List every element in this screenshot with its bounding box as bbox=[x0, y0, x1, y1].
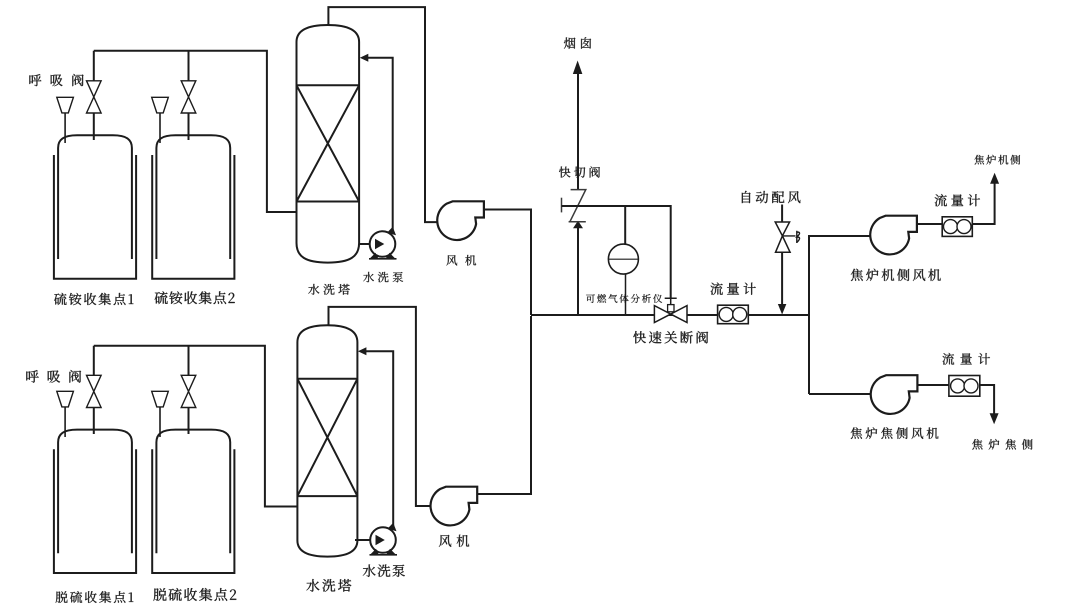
pipe tank2 valve riser bbox=[188, 51, 190, 140]
pump P2 washing pump discharge arrowhead bbox=[388, 523, 397, 532]
label kuai-su-guan-duan-fa bbox=[633, 331, 708, 343]
arrow to chimney bbox=[573, 61, 583, 75]
breathing valve funnel F1 bbox=[57, 97, 74, 113]
label kuai-qie-fa bbox=[559, 166, 600, 177]
main gas pipe bbox=[531, 314, 809, 316]
breathing valve funnel F3 bbox=[57, 391, 74, 407]
pipe chimney riser bbox=[577, 74, 579, 316]
label shui-xi-beng bottom bbox=[363, 564, 405, 576]
tank T3 desulfurization-1 outer shell bbox=[54, 449, 136, 573]
tank T1 ammonium-sulfate-1 inner vessel bbox=[58, 135, 132, 259]
tank T2 ammonium-sulfate-2 inner vessel bbox=[156, 135, 230, 259]
pump P1 washing pump feet bbox=[370, 253, 396, 259]
arrow into column1 top bbox=[360, 54, 369, 62]
pipe fan1 outlet to main line bbox=[484, 210, 532, 316]
auto-air control valve bowtie bbox=[775, 222, 790, 252]
pipe fan3 outlet bbox=[917, 184, 995, 225]
pipe auto-air valve top bbox=[781, 205, 783, 222]
pipe distribution tee riser bbox=[809, 236, 871, 394]
fan FAN3 coke oven machine side (centrifugal blower) bbox=[870, 216, 917, 255]
combustible gas analyzer circle bbox=[608, 244, 638, 274]
tank T4 desulfurization-2 outer shell bbox=[152, 449, 234, 573]
pipe analyzer branch bbox=[562, 206, 671, 298]
analyzer branch flange tick bbox=[561, 198, 563, 213]
label jiao-lu-jiao-ce bbox=[972, 439, 1032, 450]
pipe header tanks 1-2 to column 1 bbox=[94, 51, 297, 212]
quick shut-off valve stem tick bbox=[665, 298, 677, 306]
arrow auto-air into main pipe bbox=[778, 304, 787, 315]
analyzer sensing line to main pipe bbox=[625, 274, 627, 315]
label feng-ji top bbox=[446, 255, 476, 266]
washing tower column C1 shell bbox=[297, 25, 360, 263]
column C1 packing section bottom line bbox=[297, 201, 360, 203]
pipe tank4 valve riser bbox=[188, 346, 190, 434]
label tank2 caption bbox=[155, 291, 235, 304]
pipe analyzer drop bbox=[624, 206, 626, 245]
pump P2 washing pump feet bbox=[370, 549, 396, 555]
pipe auto-air valve to main bbox=[781, 252, 783, 304]
arrow below quick-cut valve bbox=[573, 221, 583, 229]
label jiao-lu-ji-ce bbox=[975, 155, 1021, 165]
analyzer chord line bbox=[609, 258, 639, 260]
label tank4 caption bbox=[154, 588, 237, 601]
column C1 packing section top line bbox=[297, 84, 360, 86]
washing tower column C2 shell bbox=[297, 325, 357, 556]
label yan-cong bbox=[564, 37, 591, 49]
label fan3 caption bbox=[851, 269, 941, 281]
quick shut-off valve bowtie bbox=[654, 306, 687, 323]
breathing valve funnel F2 bbox=[152, 97, 169, 113]
quick shut-off valve stem block bbox=[668, 305, 674, 312]
column C1 packing X diagonals bbox=[297, 85, 360, 201]
pipe pump1 suction bbox=[359, 243, 372, 245]
pipe pump2 discharge riser bbox=[362, 351, 393, 529]
flow meter FM1 rotors bbox=[719, 307, 733, 321]
valve V1 tank1 (vertical bowtie) bbox=[87, 81, 102, 113]
label feng-ji bottom bbox=[439, 535, 469, 547]
label fan4 caption bbox=[851, 427, 939, 439]
fan FAN1 (centrifugal blower) bbox=[437, 201, 484, 240]
pipe column2 top to fan2 bbox=[329, 307, 432, 506]
pipe to bottom fan4 bbox=[809, 393, 871, 395]
fan FAN4 coke oven coke side (centrifugal blower) bbox=[871, 375, 918, 414]
valve V2 tank2 (vertical bowtie) bbox=[181, 81, 196, 113]
tank T2 ammonium-sulfate-2 outer shell bbox=[152, 155, 234, 279]
pipe pump1 discharge riser bbox=[364, 58, 393, 233]
tank T1 ammonium-sulfate-1 outer shell bbox=[54, 155, 136, 279]
pump P1 washing pump discharge arrowhead bbox=[387, 227, 396, 236]
flow meter FM2 rotors bbox=[944, 220, 958, 234]
label analyzer caption bbox=[586, 294, 662, 303]
label shui-xi-ta bottom bbox=[306, 579, 351, 592]
pump P1 washing pump base line bbox=[369, 258, 397, 260]
breathing valve F3 stem bbox=[64, 407, 66, 437]
arrow to coke oven machine side bbox=[990, 173, 999, 184]
tank T3 desulfurization-1 inner vessel bbox=[58, 430, 132, 554]
fan FAN2 (centrifugal blower) bbox=[431, 487, 478, 526]
column C2 packing section top line bbox=[297, 378, 357, 380]
pump P2 washing pump circle bbox=[370, 527, 396, 553]
label hu-xi-fa top bbox=[29, 74, 83, 86]
column C2 packing section bottom line bbox=[297, 495, 357, 497]
tank T4 desulfurization-2 inner vessel bbox=[156, 430, 230, 554]
label hu-xi-fa bottom bbox=[26, 370, 81, 383]
pipe column1 top to fan1 bbox=[328, 7, 437, 222]
flow meter FM1 box bbox=[718, 305, 749, 324]
pump P2 washing pump base line bbox=[370, 554, 398, 556]
breathing valve F4 stem bbox=[159, 407, 161, 437]
pump P2 washing pump inlet arrow bbox=[376, 535, 385, 545]
column C2 packing X diagonals bbox=[297, 379, 357, 496]
breathing valve F1 stem bbox=[64, 113, 66, 143]
pipe pump2 suction bbox=[355, 539, 372, 541]
auto-air valve actuator bbox=[782, 231, 799, 243]
label liu-liang-ji bottom-right bbox=[942, 353, 990, 365]
breathing valve F2 stem bbox=[159, 113, 161, 143]
label liu-liang-ji middle bbox=[710, 283, 755, 295]
flow meter FM3 rotors bbox=[951, 379, 965, 393]
label shui-xi-beng top bbox=[363, 272, 403, 282]
pipe fan2 outlet to main line bbox=[477, 316, 531, 494]
arrow to coke oven coke side bbox=[990, 413, 999, 424]
label zi-dong-pei-feng bbox=[742, 191, 800, 203]
pump P1 washing pump circle bbox=[370, 231, 396, 257]
valve V4 tank4 (vertical bowtie) bbox=[181, 375, 196, 407]
pipe fan4 outlet bbox=[917, 385, 994, 414]
flow meter FM2 box bbox=[942, 217, 972, 237]
quick-cut damper valve (Z symbol) bbox=[569, 190, 586, 222]
flow meter FM3 box bbox=[949, 376, 980, 397]
label liu-liang-ji top-right bbox=[935, 194, 980, 206]
pump P1 washing pump inlet arrow bbox=[375, 239, 384, 249]
label tank3 caption bbox=[56, 591, 134, 603]
pipe tank3 valve riser bbox=[93, 346, 95, 434]
pipe tank1 valve riser bbox=[93, 51, 95, 140]
breathing valve funnel F4 bbox=[152, 391, 169, 407]
pipe header tanks 3-4 to column 2 bbox=[94, 346, 298, 507]
label tank1 caption bbox=[54, 293, 133, 305]
arrow into column2 top bbox=[358, 347, 367, 355]
label shui-xi-ta top bbox=[308, 284, 350, 295]
valve V3 tank3 (vertical bowtie) bbox=[87, 375, 102, 407]
